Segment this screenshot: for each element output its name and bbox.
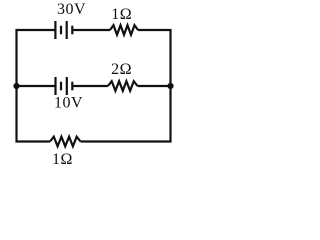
svg-text:2Ω: 2Ω xyxy=(111,61,132,78)
svg-text:10V: 10V xyxy=(54,95,83,112)
svg-text:30V: 30V xyxy=(57,1,86,18)
svg-text:1Ω: 1Ω xyxy=(52,151,73,168)
svg-text:1Ω: 1Ω xyxy=(111,6,132,23)
